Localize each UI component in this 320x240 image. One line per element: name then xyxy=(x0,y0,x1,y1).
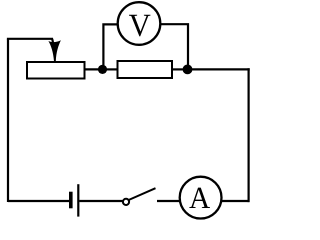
resistor R2 xyxy=(118,61,173,78)
node A (junction dot) xyxy=(98,65,107,74)
wire: left vertical side xyxy=(7,39,9,202)
wire: node B to right corner xyxy=(188,68,250,70)
wire: right vertical side xyxy=(248,68,250,202)
wire: rheostat to node A xyxy=(85,68,104,70)
wire: node A to resistor R2 xyxy=(103,68,118,70)
rheostat wiper arrow xyxy=(48,39,61,62)
wire: switch to ammeter xyxy=(157,200,182,202)
wire: battery to switch xyxy=(79,200,122,202)
wire: bottom left (corner to battery) xyxy=(8,200,69,202)
wire: voltmeter left lead xyxy=(103,24,118,66)
wire: ammeter to bottom-right corner xyxy=(219,200,249,202)
voltmeter V xyxy=(118,2,161,45)
battery BT1 xyxy=(71,184,79,216)
ammeter A xyxy=(180,177,222,219)
wire: voltmeter right lead xyxy=(160,24,189,66)
node B (junction dot) xyxy=(183,65,193,75)
rheostat R1 (slide resistor box) xyxy=(27,62,85,79)
wire: resistor R2 to node B xyxy=(172,68,188,70)
switch S1 (open) xyxy=(123,188,156,205)
wire: top-left horizontal to wiper xyxy=(7,38,53,40)
